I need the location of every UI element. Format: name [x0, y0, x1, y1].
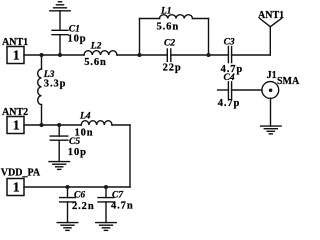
- svg-text:ANT1: ANT1: [2, 37, 28, 48]
- svg-text:ANT1: ANT1: [258, 10, 284, 21]
- svg-text:22p: 22p: [163, 62, 182, 73]
- svg-text:L2: L2: [90, 41, 102, 51]
- svg-text:C4: C4: [224, 73, 235, 83]
- svg-text:VDD_PA: VDD_PA: [1, 168, 41, 179]
- svg-text:1: 1: [13, 118, 20, 133]
- svg-text:L1: L1: [160, 7, 172, 17]
- svg-text:10p: 10p: [68, 147, 87, 158]
- svg-text:J1: J1: [267, 70, 277, 81]
- svg-text:C3: C3: [224, 38, 235, 48]
- svg-text:1: 1: [13, 180, 20, 195]
- svg-text:3.3p: 3.3p: [44, 79, 67, 90]
- svg-text:1: 1: [13, 48, 20, 63]
- svg-text:C5: C5: [69, 137, 80, 147]
- svg-text:4.7p: 4.7p: [218, 98, 241, 109]
- svg-text:SMA: SMA: [277, 76, 300, 87]
- svg-text:4.7n: 4.7n: [111, 201, 134, 212]
- svg-text:5.6n: 5.6n: [157, 22, 180, 33]
- svg-text:ANT2: ANT2: [2, 107, 28, 118]
- svg-text:2.2n: 2.2n: [72, 201, 95, 212]
- svg-text:5.6n: 5.6n: [84, 57, 107, 68]
- svg-text:10p: 10p: [68, 33, 87, 44]
- svg-text:C7: C7: [112, 190, 124, 200]
- svg-text:L4: L4: [79, 112, 91, 122]
- svg-text:C2: C2: [164, 39, 175, 49]
- svg-text:C6: C6: [74, 190, 85, 200]
